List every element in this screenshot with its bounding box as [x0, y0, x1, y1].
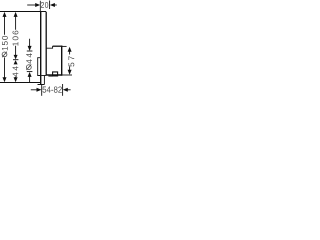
plate bottom edge	[41, 75, 46, 77]
dim line 57	[69, 51, 71, 71]
label 54-82	[43, 86, 62, 92]
tick 106/44	[13, 59, 18, 61]
dim 54-82 tail left	[31, 89, 37, 91]
arrow 44 down	[14, 77, 18, 82]
dim 20 tail left	[27, 4, 37, 6]
label d150 digits	[2, 36, 8, 50]
below-plate rectangle	[38, 76, 45, 85]
dim 54-82 extension left	[41, 85, 43, 96]
wall extension above	[39, 1, 41, 12]
arrow d150 down	[3, 77, 7, 82]
wall band	[40, 12, 42, 85]
dim 20 extension right	[49, 1, 51, 10]
dim line 106	[15, 17, 17, 56]
stop button protrusion	[48, 75, 52, 77]
arrow d44 up	[28, 72, 32, 77]
diameter symbol d44	[26, 64, 31, 70]
arrow 20 left	[50, 3, 55, 7]
box bottom	[46, 74, 62, 76]
dim 54-82 tail right	[67, 89, 71, 91]
dim line d150	[4, 17, 6, 79]
arrow 20 right	[35, 3, 40, 7]
arrow 54-82 left	[63, 88, 68, 92]
diameter symbol d150	[2, 52, 7, 58]
arrow 54-82 right	[37, 88, 42, 92]
arrow 57 down	[68, 70, 72, 75]
label d44 digits	[26, 53, 32, 63]
arrow 106 down	[14, 55, 18, 60]
notch under box	[53, 72, 58, 76]
tick d44 bottom	[27, 71, 33, 73]
label 20	[41, 2, 48, 8]
tick 57 bottom	[62, 74, 72, 76]
tick d44 top	[27, 50, 33, 52]
arrow d150 up	[3, 12, 7, 17]
arrow d44 down	[28, 46, 32, 51]
plate front face	[45, 12, 47, 76]
label 44	[13, 66, 19, 76]
dim line 44	[15, 77, 17, 79]
box front face	[61, 46, 63, 76]
bottom reference line	[0, 82, 41, 84]
arrow 44 up	[14, 60, 18, 64]
box shoulder	[46, 46, 52, 48]
box top	[53, 45, 63, 47]
arrow 57 up	[68, 47, 72, 52]
dim 20 tail right	[54, 4, 57, 6]
label 57	[68, 56, 74, 66]
label 106	[12, 31, 18, 46]
hidden body outline	[38, 58, 42, 76]
dim 54-82 extension right	[62, 84, 64, 96]
top reference line + plate top edge	[0, 11, 46, 13]
dim line d44	[29, 39, 31, 83]
arrow 106 up	[14, 12, 18, 17]
tick 57 top	[62, 45, 67, 47]
